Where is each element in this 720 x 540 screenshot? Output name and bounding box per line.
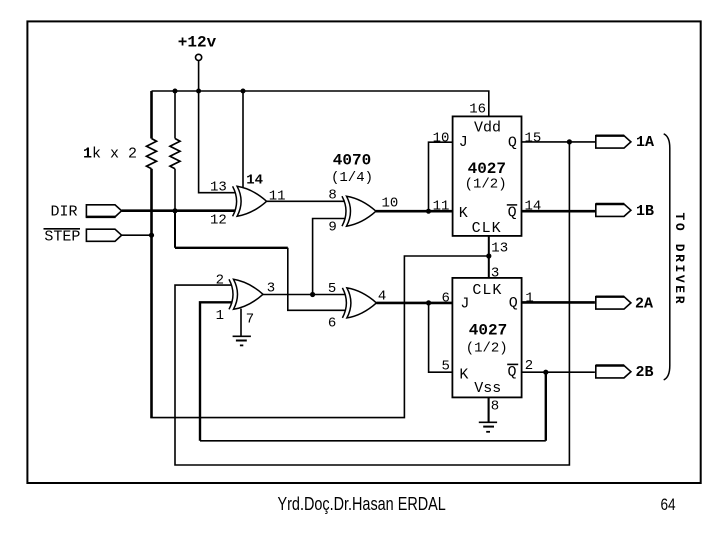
svg-text:Vdd: Vdd — [474, 119, 501, 136]
svg-text:11: 11 — [269, 189, 286, 205]
svg-text:15: 15 — [525, 131, 542, 147]
svg-text:TO DRIVER: TO DRIVER — [672, 213, 687, 307]
svg-text:(1/2): (1/2) — [465, 177, 507, 193]
wire CLK node to U3 CLK pin3 — [488, 256, 490, 278]
brace grouping outputs — [664, 134, 670, 380]
wire U3 Vss pin8 to ground — [488, 397, 490, 422]
connector 1B output flag — [596, 204, 631, 216]
ground (U3 pin8) — [479, 421, 497, 423]
svg-text:8: 8 — [491, 398, 499, 414]
svg-text:8: 8 — [328, 188, 336, 204]
wire XOR U2B out to U1 K pin11 — [376, 210, 453, 213]
svg-text:4027: 4027 — [468, 160, 506, 178]
wire 1A feedback to XOR U2C pin2 — [175, 142, 569, 465]
svg-text:Q: Q — [508, 134, 517, 151]
svg-text:3: 3 — [491, 265, 499, 281]
ground (U2C pin7) — [233, 335, 251, 337]
svg-text:7: 7 — [246, 312, 254, 328]
xor-gate U2A (4070 pins 13,12 -> 11, Vdd pin 14) — [233, 186, 267, 216]
wire CLK node to left rail (clock net) — [150, 256, 489, 418]
junction 2B feedback — [543, 370, 548, 375]
flip-flop U1 4027 box — [453, 116, 522, 235]
wire STEP to left rail — [122, 234, 152, 236]
svg-text:CLK: CLK — [472, 220, 502, 237]
svg-text:16: 16 — [469, 101, 486, 117]
svg-text:12: 12 — [210, 213, 227, 229]
svg-text:5: 5 — [442, 359, 450, 375]
junction STEP/left rail — [149, 233, 154, 238]
wire U1 Qbar to 1B — [522, 210, 596, 213]
svg-text:1A: 1A — [636, 134, 654, 151]
svg-text:Q: Q — [508, 205, 517, 222]
wire J/K tie to U1 J pin10 — [429, 142, 453, 211]
svg-text:4027: 4027 — [469, 322, 507, 340]
svg-text:STEP: STEP — [44, 228, 80, 245]
junction J/K tie U1 — [426, 209, 431, 214]
connector 2B output flag — [596, 366, 631, 378]
svg-text:2B: 2B — [636, 364, 654, 381]
svg-text:5: 5 — [328, 281, 336, 297]
junction DIR/R2 — [173, 208, 178, 213]
svg-text:Vss: Vss — [474, 380, 501, 397]
junction J/K tie U3 — [426, 300, 431, 305]
svg-text:14: 14 — [246, 173, 263, 189]
wire DIR branch to XOR U2D pin6 — [174, 211, 176, 248]
svg-text:10: 10 — [433, 131, 450, 147]
wire R1 run down left rail — [150, 169, 153, 418]
svg-text:1k x 2: 1k x 2 — [83, 146, 137, 163]
wire +12v drop to bus — [198, 61, 200, 91]
junction bus/U2 Vdd — [241, 89, 246, 94]
wire +12v to XOR U2A pin13 — [199, 91, 236, 193]
wire J/K tie to U3 K pin5 — [429, 303, 453, 372]
svg-text:1B: 1B — [636, 203, 654, 220]
SLIDE-FRAME — [27, 21, 700, 483]
svg-text:2A: 2A — [635, 296, 653, 313]
wire U1 CLK pin13 stub — [488, 236, 490, 256]
+12V terminal circle — [196, 54, 202, 60]
svg-text:9: 9 — [328, 219, 336, 235]
svg-text:11: 11 — [433, 199, 450, 215]
svg-text:13: 13 — [210, 179, 227, 195]
xor-gate U2C (pins 2,1 -> 3, Vss pin 7) — [229, 279, 263, 309]
svg-text:J: J — [460, 295, 469, 312]
junction CLK node — [486, 253, 491, 258]
wire XOR U2D out to U3 J pin6 — [376, 302, 452, 305]
wire U3 Q to 2A — [522, 301, 595, 304]
svg-text:4070: 4070 — [333, 151, 371, 169]
wire DIR to XOR U2A pin12 — [122, 209, 236, 212]
svg-text:Yrd.Doç.Dr.Hasan ERDAL: Yrd.Doç.Dr.Hasan ERDAL — [278, 493, 446, 514]
svg-text:K: K — [459, 367, 468, 384]
svg-text:10: 10 — [382, 196, 399, 212]
svg-text:K: K — [459, 205, 468, 222]
svg-text:Q: Q — [508, 364, 517, 381]
xor-gate U2B (pins 8,9 -> 10) — [342, 196, 376, 226]
svg-text:1: 1 — [525, 291, 533, 307]
wire 2B feedback to XOR U2C pin1 — [200, 302, 233, 441]
xor-gate U2D (pins 5,6 -> 4) — [342, 288, 376, 318]
svg-text:CLK: CLK — [472, 282, 502, 299]
wire XOR U2C pin7 to ground — [240, 309, 242, 336]
wire XOR U2A out to XOR U2B pin8 — [267, 200, 345, 202]
svg-text:6: 6 — [442, 291, 450, 307]
wire Vdd stub to XOR U2A pin14 — [242, 91, 244, 190]
wire +12V bus to 4027 U1 pin16 — [152, 91, 489, 116]
resistor R1 — [150, 91, 153, 139]
svg-text:2: 2 — [216, 273, 224, 289]
svg-text:13: 13 — [491, 241, 508, 257]
svg-text:(1/2): (1/2) — [466, 340, 508, 356]
junction 1A feedback — [567, 139, 572, 144]
resistor R2 — [174, 91, 176, 139]
junction U2C out / U2B pin9 branch — [310, 292, 315, 297]
wire U1 Q to 1A — [522, 141, 596, 143]
wire U3 Qbar to 2B — [522, 371, 595, 373]
wire XOR U2C out node to XOR U2B pin9 — [313, 219, 345, 295]
svg-text:DIR: DIR — [51, 204, 78, 221]
svg-text:64: 64 — [661, 496, 677, 515]
junction bus/R2 — [173, 89, 178, 94]
svg-text:Q: Q — [509, 295, 518, 312]
wire XOR U2C out to XOR U2D pin5 — [263, 294, 345, 296]
svg-text:(1/4): (1/4) — [331, 170, 373, 186]
flip-flop U3 4027 box — [452, 278, 521, 398]
connector 1A output flag — [596, 136, 631, 148]
svg-text:+12v: +12v — [178, 34, 217, 52]
svg-text:J: J — [459, 134, 468, 151]
junction bus/+12v — [196, 89, 201, 94]
connector 2A output flag — [596, 297, 631, 309]
svg-text:6: 6 — [328, 315, 336, 331]
svg-text:1: 1 — [216, 308, 224, 324]
